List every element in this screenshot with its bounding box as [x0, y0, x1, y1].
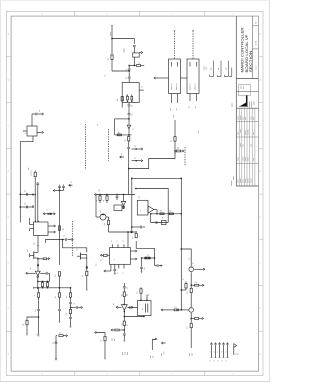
svg-text:x: x	[36, 230, 38, 231]
wire T1 right pin	[37, 131, 43, 133]
svg-text:xxxxx xx: xxxxx xx	[194, 83, 196, 90]
svg-text:xxx: xxx	[150, 356, 152, 359]
wire chain1 end	[38, 317, 40, 336]
net label above chains	[28, 168, 32, 177]
svg-text:xx: xx	[142, 308, 144, 310]
wire opamp out row	[150, 210, 182, 223]
resistor R39	[137, 287, 150, 296]
net stub N3	[225, 61, 229, 77]
node D	[128, 118, 129, 119]
shield dashed S3	[184, 147, 186, 166]
svg-text:xxxxxx: xxxxxx	[250, 178, 252, 183]
U1 bottom pin	[34, 236, 39, 246]
stub bottom centre	[150, 338, 157, 358]
row two caps	[152, 222, 169, 224]
svg-text:3: 3	[106, 14, 107, 16]
svg-text:1u: 1u	[24, 190, 26, 192]
shield dashed link S2	[71, 221, 73, 256]
resistor R35	[187, 319, 193, 349]
svg-text:xxx: xxx	[163, 352, 165, 355]
resistor R24	[175, 148, 184, 153]
svg-text:xxxxx xx: xxxxx xx	[176, 83, 178, 90]
resistor R3	[117, 132, 121, 136]
svg-text:xxx: xxx	[27, 249, 29, 252]
resistor R1	[108, 55, 114, 61]
svg-text:xxxxx: xxxxx	[233, 176, 235, 180]
mixer IC U2	[110, 248, 131, 265]
wire to U3	[37, 265, 39, 271]
node H	[38, 316, 39, 317]
svg-text:xxxx: xxxx	[243, 86, 245, 89]
svg-text:xxxxxx: xxxxxx	[248, 178, 250, 183]
resistor R19	[66, 308, 72, 317]
svg-text:xxxxx: xxxxx	[110, 32, 112, 36]
svg-text:1u: 1u	[132, 237, 134, 239]
capacitor C25	[52, 342, 57, 344]
component X1 box	[131, 51, 140, 58]
capacitor C7	[127, 147, 130, 155]
svg-text:xxx: xxx	[226, 68, 228, 71]
resistor R13	[96, 194, 101, 203]
net label right column	[198, 131, 200, 134]
branch right of Q6	[37, 258, 49, 260]
label near C1	[123, 47, 125, 52]
wire below U3	[37, 278, 38, 289]
U1 right pin 1	[48, 225, 55, 227]
relay K1	[169, 59, 181, 94]
svg-text:xxxxx: xxxxx	[237, 157, 239, 161]
svg-text:xxxxxxx: xxxxxxx	[248, 130, 250, 136]
wire vcc left drop	[111, 39, 113, 56]
svg-text:1u: 1u	[141, 86, 143, 88]
svg-text:1u: 1u	[117, 99, 119, 101]
svg-text:1u: 1u	[138, 62, 140, 64]
resistor row RA	[129, 62, 144, 66]
wire Q4 emitter	[191, 272, 192, 286]
svg-text:xx: xx	[183, 278, 185, 280]
resistor R31	[195, 282, 204, 287]
capacitor C4	[126, 73, 131, 83]
svg-text:x: x	[114, 259, 116, 260]
diode D2	[43, 209, 55, 215]
resistor R4	[124, 135, 130, 147]
U2 right pins	[131, 250, 137, 260]
left rail branch 1	[20, 194, 34, 196]
transformer T1	[25, 126, 37, 136]
feedback loop left wire	[131, 178, 133, 232]
svg-text:xxxxx: xxxxx	[203, 66, 205, 70]
svg-text:xx: xx	[193, 262, 195, 264]
node F	[35, 194, 36, 195]
resistor R34	[181, 278, 187, 290]
title block revision table	[236, 108, 258, 186]
net label centre	[96, 263, 98, 266]
net stub N4	[229, 68, 232, 77]
svg-text:xxx: xxx	[235, 353, 237, 355]
svg-text:4: 4	[41, 14, 42, 16]
pin arrow P2	[69, 181, 73, 186]
svg-text:xxxxxx: xxxxxx	[245, 130, 247, 135]
svg-text:1u: 1u	[63, 228, 65, 230]
svg-text:xxxxx xx: xxxxx xx	[171, 83, 173, 90]
svg-text:1 of 1: 1 of 1	[256, 41, 258, 45]
resistor R9	[34, 288, 39, 309]
svg-text:xxxxx: xxxxx	[240, 143, 242, 147]
svg-text:1k: 1k	[127, 294, 129, 296]
capacitor C6	[128, 114, 134, 119]
svg-text:4: 4	[41, 374, 42, 376]
svg-text:xxxx: xxxx	[250, 144, 252, 147]
resistor R28	[132, 231, 138, 248]
op-amp U1	[34, 221, 49, 236]
pin stub PA	[132, 146, 143, 151]
wire between K1 and K2	[181, 77, 188, 79]
svg-text:1u: 1u	[134, 146, 136, 148]
svg-text:xxx: xxx	[96, 263, 98, 266]
capacitor C3	[126, 69, 131, 73]
svg-text:xxxx: xxxx	[122, 352, 124, 355]
node A	[129, 65, 136, 66]
capacitor C15	[58, 309, 61, 322]
svg-text:xxxx: xxxx	[192, 353, 194, 356]
wire Q2 collector	[108, 217, 110, 220]
wire node J right	[132, 231, 136, 233]
svg-text:xxx: xxx	[77, 248, 79, 251]
svg-text:xx: xx	[100, 211, 102, 213]
row chain	[141, 257, 155, 258]
svg-text:1u: 1u	[126, 69, 128, 71]
svg-text:xxxx: xxxx	[245, 117, 247, 120]
relay K2 pins	[188, 94, 197, 109]
svg-text:1u: 1u	[66, 296, 68, 298]
resistor R10	[23, 320, 29, 335]
svg-text:1u: 1u	[108, 58, 110, 60]
svg-text:xxxxx: xxxxx	[243, 179, 245, 183]
svg-text:xxxxxxxx: xxxxxxxx	[249, 101, 251, 107]
svg-text:xxxx: xxxx	[112, 338, 114, 341]
branch arrow row	[155, 258, 163, 267]
svg-text:xxx: xxx	[36, 333, 38, 336]
svg-text:1u: 1u	[174, 307, 176, 309]
svg-text:1u: 1u	[104, 223, 106, 225]
resistor R25	[160, 211, 164, 215]
feedback loop right wire	[181, 178, 182, 310]
capacitor C11	[24, 203, 27, 209]
svg-text:1k: 1k	[177, 148, 179, 150]
svg-text:xx: xx	[97, 124, 99, 126]
svg-text:xxxxx: xxxxx	[237, 116, 239, 120]
node K	[86, 267, 88, 269]
svg-text:1u: 1u	[35, 310, 37, 312]
wire centre drop	[96, 195, 100, 218]
transistor Q6	[27, 249, 38, 258]
label D1	[132, 128, 134, 130]
transistor Q4	[189, 262, 205, 271]
svg-text:xxxx: xxxx	[243, 144, 245, 147]
resistor R20	[100, 336, 106, 359]
U2 top pins	[111, 240, 125, 247]
drawing frame inner border	[11, 16, 258, 371]
net stub N1	[210, 61, 214, 77]
svg-text:xxxxx: xxxxx	[241, 85, 243, 89]
resistor R32	[187, 288, 193, 307]
svg-text:1u: 1u	[195, 282, 197, 284]
svg-text:1u: 1u	[59, 332, 61, 334]
svg-text:1u: 1u	[187, 292, 189, 294]
svg-text:1k: 1k	[169, 211, 171, 213]
connector J1 dashed link	[174, 30, 176, 58]
resistor R18	[66, 288, 72, 302]
svg-text:1k: 1k	[160, 211, 162, 213]
resistor R23	[170, 137, 176, 154]
svg-text:1u: 1u	[55, 296, 57, 298]
wire mid chain	[133, 57, 135, 65]
label small top centre	[97, 124, 99, 126]
wire Q4 top	[181, 248, 192, 266]
capacitor C22	[123, 330, 126, 342]
svg-text:1u: 1u	[170, 140, 172, 142]
U1 left pins	[30, 218, 34, 231]
resistor R12	[55, 293, 61, 309]
rail top centre	[95, 189, 135, 196]
capacitor C1	[133, 46, 136, 53]
feedback loop top wire	[131, 178, 181, 179]
connector J2 dashed link	[192, 30, 194, 58]
U2 bottom pins	[113, 264, 124, 274]
bottom rail wire	[34, 287, 72, 289]
svg-text:1u: 1u	[127, 287, 129, 289]
svg-text:xx: xx	[127, 324, 129, 326]
branch C20	[71, 303, 83, 309]
node vcc junction	[111, 38, 112, 39]
capacitor C19	[69, 318, 72, 328]
shield dashed link S1	[108, 129, 110, 161]
capacitor C16	[116, 194, 119, 200]
svg-text:xxxx: xxxx	[243, 117, 245, 120]
svg-text:xx: xx	[34, 295, 36, 297]
svg-text:xxxxxx: xxxxxx	[245, 178, 247, 183]
title block company logo	[239, 96, 255, 108]
svg-text:xx: xx	[30, 268, 32, 270]
svg-text:1u: 1u	[66, 313, 68, 315]
capacitor C12	[35, 309, 40, 316]
svg-text:xxxxx: xxxxx	[245, 157, 247, 161]
svg-text:xxx: xxx	[170, 108, 172, 111]
svg-text:1u: 1u	[24, 203, 26, 205]
svg-text:xx: xx	[64, 235, 66, 237]
svg-text:xxxx: xxxx	[127, 352, 129, 355]
resistor R8	[46, 281, 48, 288]
svg-text:xxxxxxx: xxxxxxx	[231, 181, 233, 187]
wire below Q6	[37, 259, 39, 265]
filter block U7	[137, 196, 148, 215]
frame zone tick marks and zone labels	[6, 11, 263, 375]
wire output end	[55, 359, 57, 360]
svg-text:1u: 1u	[137, 292, 139, 294]
op-amp U3	[26, 268, 40, 278]
drawing frame outer border	[6, 11, 263, 375]
svg-text:xxx: xxx	[211, 68, 213, 71]
wire long drop to rail	[128, 155, 130, 195]
svg-text:1u: 1u	[144, 267, 146, 269]
svg-text:1u: 1u	[147, 255, 149, 257]
op-amp U8	[148, 206, 157, 213]
title block drawn-by cells	[239, 85, 251, 96]
loop left components	[131, 226, 145, 229]
svg-text:1u: 1u	[52, 342, 54, 344]
svg-text:xxx: xxx	[99, 189, 101, 192]
svg-text:xxxxxx: xxxxxx	[243, 156, 245, 161]
svg-text:xx: xx	[47, 209, 49, 211]
resistor R5	[34, 171, 36, 223]
svg-text:xx: xx	[101, 259, 103, 261]
svg-text:xxxxx xx: xxxxx xx	[190, 83, 192, 90]
crystal wires	[129, 293, 148, 308]
node J	[131, 231, 133, 233]
vcc wire top tick	[111, 26, 113, 38]
capacitor C23	[156, 221, 157, 224]
capacitor C5	[128, 103, 134, 114]
shield dashed link S4	[85, 124, 87, 169]
resistor R38	[121, 292, 128, 305]
loop bottom wire	[136, 247, 154, 249]
wire output branch	[56, 336, 57, 361]
svg-text:1k: 1k	[100, 340, 102, 342]
resistor R16	[101, 254, 110, 261]
svg-text:1: 1	[232, 14, 233, 16]
branch right from Q4	[191, 284, 194, 286]
net label Q4	[188, 257, 190, 260]
net name list	[203, 66, 207, 70]
inner loop wire	[135, 188, 168, 223]
resistor R27	[162, 217, 167, 225]
transistor Q5	[176, 308, 194, 313]
right rail	[59, 191, 61, 241]
svg-text:1u: 1u	[121, 323, 123, 325]
connector pin P8	[225, 343, 228, 362]
wire Q5 emitter	[191, 313, 192, 319]
resistor R2	[117, 96, 123, 107]
svg-text:xxx: xxx	[195, 106, 197, 109]
svg-text:x xx xx: x xx xx	[256, 65, 258, 70]
crystal Y1	[138, 301, 152, 316]
pin arrow X branch	[139, 51, 142, 53]
svg-text:xxxxxxxx: xxxxxxxx	[251, 101, 253, 107]
oscillator module B3	[122, 83, 144, 103]
connector pin P7	[221, 343, 224, 362]
pin stub PB	[132, 157, 143, 162]
capacitor C9 chain	[36, 182, 39, 222]
wire L-bend	[95, 331, 105, 336]
transistor Q2	[100, 211, 109, 220]
svg-text:2: 2	[171, 374, 172, 376]
svg-text:xxxxx: xxxxx	[253, 101, 255, 105]
node N	[174, 150, 175, 151]
pin stub P1	[120, 153, 124, 158]
wire U6 right	[127, 306, 133, 308]
pin arrow P3	[39, 110, 43, 115]
svg-text:xxx: xxx	[139, 196, 141, 199]
capacitor C8	[36, 113, 42, 116]
svg-text:1u: 1u	[131, 105, 133, 107]
svg-text:xxx: xxx	[114, 339, 116, 342]
svg-text:1: 1	[232, 374, 233, 376]
wire cross rail	[115, 134, 132, 136]
svg-text:xxx: xxx	[188, 257, 190, 260]
svg-text:xxxxx: xxxxx	[248, 157, 250, 161]
wire to relay K1	[154, 77, 169, 79]
resistor R15	[104, 220, 110, 232]
wire net drop	[174, 120, 176, 137]
svg-text:1k: 1k	[118, 132, 120, 134]
wire rail elbow	[59, 240, 61, 265]
svg-text:xx: xx	[113, 303, 115, 305]
svg-text:xxx: xxx	[28, 168, 30, 171]
relay K1 pins	[170, 94, 178, 111]
left rail branch 2	[20, 205, 34, 208]
svg-text:xxx: xxx	[218, 68, 220, 71]
capacitor C17	[62, 235, 73, 241]
label left of chain	[105, 74, 107, 77]
capacitor C21	[123, 283, 129, 292]
wire node N step	[128, 151, 175, 169]
net label W1	[36, 333, 38, 336]
wire loop bottom drop	[154, 248, 156, 258]
svg-text:xxx: xxx	[176, 108, 178, 111]
svg-text:xxxx: xxxx	[173, 115, 175, 118]
svg-text:xxxxx: xxxxx	[232, 103, 234, 107]
svg-text:xxx: xxx	[152, 356, 154, 359]
capacitor C26	[40, 272, 49, 282]
wire vcc top rail	[112, 39, 134, 45]
svg-text:xxx: xxx	[188, 106, 190, 109]
resistor R37	[58, 226, 64, 230]
resistor R11	[55, 272, 61, 293]
svg-text:xxxx: xxxx	[253, 132, 255, 135]
branch right U6	[124, 316, 145, 318]
svg-text:xx: xx	[132, 128, 134, 130]
capacitor C24	[140, 258, 146, 273]
resistor R7	[41, 281, 43, 288]
svg-text:2: 2	[171, 14, 172, 16]
net stub N2	[217, 61, 221, 77]
wire to node B	[128, 66, 130, 69]
rail right chain top	[53, 189, 59, 191]
svg-text:xxxxxx: xxxxxx	[240, 115, 242, 120]
svg-text:xx: xx	[121, 153, 123, 155]
svg-text:1u: 1u	[148, 294, 150, 296]
wire down to U2	[127, 231, 128, 247]
svg-text:1k: 1k	[121, 294, 123, 296]
wire vcc vertical	[111, 37, 113, 38]
wire U6 out	[124, 310, 125, 312]
branch to R10	[27, 317, 39, 321]
relay K2	[187, 59, 199, 94]
svg-text:xxxxxxx: xxxxxxx	[31, 170, 33, 176]
svg-text:xxxx: xxxx	[206, 67, 208, 70]
svg-text:xxxx: xxxx	[189, 353, 191, 356]
resistor R21	[121, 321, 128, 330]
wire to node J	[109, 231, 132, 233]
svg-text:xxxxx: xxxxx	[237, 179, 239, 183]
U2 bottom left pin	[104, 264, 111, 272]
net label top	[173, 115, 175, 118]
net labels under Q5	[189, 353, 194, 356]
svg-text:SECTION: SECTION	[248, 50, 253, 72]
svg-text:xxxxx: xxxxx	[240, 129, 242, 133]
svg-text:1u: 1u	[126, 77, 128, 79]
node G	[37, 264, 39, 266]
